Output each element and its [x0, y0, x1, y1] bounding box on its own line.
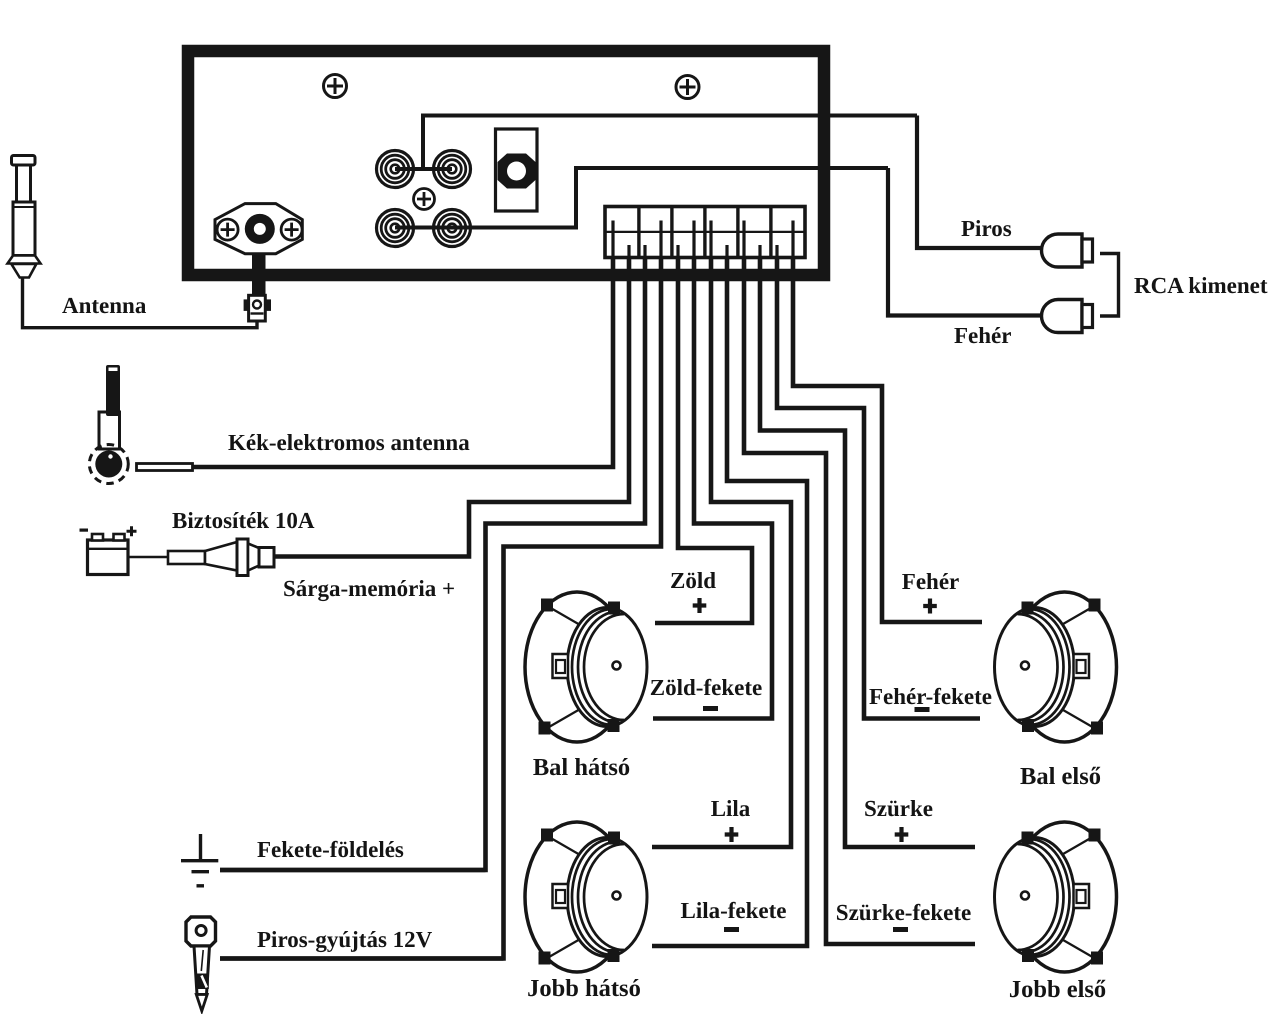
- electric antenna plug body: [99, 412, 120, 449]
- svg-text:Jobb első: Jobb első: [1009, 976, 1106, 1003]
- DIN module housing: [496, 129, 538, 211]
- wire black ground (pin 3): [220, 258, 645, 870]
- wire purple-black - right rear (pin 8): [652, 258, 807, 946]
- RCA jack rear bottom-right: [434, 210, 471, 247]
- wire yellow memory to fuse (pin 2): [275, 258, 629, 557]
- DIN module nut: [498, 154, 536, 189]
- svg-text:Piros: Piros: [961, 216, 1012, 241]
- antenna socket screw right: [281, 219, 302, 240]
- antenna socket screw left: [217, 219, 238, 240]
- svg-text:Fehér: Fehér: [954, 323, 1011, 348]
- battery plus sign: [127, 526, 137, 536]
- antenna plug side tabs: [244, 299, 250, 311]
- plus purple: [725, 827, 739, 842]
- minus grey-black: [893, 927, 908, 932]
- RCA jack rear top-left: [377, 151, 414, 188]
- wire grey-black - right front (pin 9): [744, 258, 975, 944]
- speaker right front (Jobb elso): [995, 822, 1117, 972]
- wire white-black - left front (pin 11): [777, 258, 980, 719]
- svg-text:Sárga-memória +: Sárga-memória +: [283, 576, 455, 602]
- fuse holder lead: [168, 551, 205, 564]
- minus purple-black: [724, 927, 739, 932]
- svg-text:Piros-gyújtás 12V: Piros-gyújtás 12V: [257, 927, 433, 953]
- head unit chassis: [188, 51, 824, 275]
- plus grey: [895, 827, 909, 842]
- wire purple + right rear (pin 7): [652, 258, 791, 847]
- battery terminal right: [114, 534, 125, 541]
- antenna mast body: [13, 202, 35, 256]
- antenna mast cap: [12, 156, 36, 166]
- svg-text:Biztosíték 10A: Biztosíték 10A: [172, 508, 315, 533]
- RCA jack rear top-right: [434, 151, 471, 188]
- wire grey + right front (pin 10): [760, 258, 975, 847]
- speaker right rear (Jobb hatso): [525, 822, 647, 972]
- battery body: [88, 540, 129, 575]
- plus white: [923, 599, 937, 614]
- svg-text:Jobb hátsó: Jobb hátsó: [527, 975, 641, 1002]
- svg-text:Lila-fekete: Lila-fekete: [680, 898, 786, 923]
- antenna socket octagon: [215, 204, 302, 254]
- ignition key head: [186, 917, 216, 946]
- wiring harness connector block: [605, 207, 805, 258]
- svg-text:Antenna: Antenna: [62, 293, 147, 318]
- svg-text:Fekete-földelés: Fekete-földelés: [257, 837, 404, 862]
- wire RCA red line inside unit: [395, 116, 917, 170]
- svg-text:Fehér: Fehér: [902, 569, 959, 594]
- screw between RCA jacks: [414, 189, 435, 210]
- screw top-right: [676, 76, 699, 99]
- wire ignition lead: [220, 956, 504, 960]
- wire RCA white to plug: [888, 168, 1043, 316]
- wire RCA red to plug: [917, 116, 1043, 249]
- svg-text:Zöld: Zöld: [670, 568, 716, 593]
- antenna socket barrel: [245, 214, 275, 244]
- antenna plug body: [249, 295, 266, 321]
- fuse holder collar: [237, 539, 248, 576]
- antenna mast flange: [8, 256, 41, 264]
- svg-text:Zöld-fekete: Zöld-fekete: [650, 675, 762, 700]
- wire battery to fuse: [128, 556, 168, 559]
- wire blue electric antenna (pin 1): [193, 258, 614, 467]
- svg-text:Lila: Lila: [711, 796, 751, 821]
- svg-text:Bal hátsó: Bal hátsó: [533, 754, 630, 781]
- svg-text:RCA kimenet: RCA kimenet: [1134, 273, 1268, 298]
- wire white + left front (pin 12): [793, 258, 982, 622]
- electric antenna plug ball: [95, 451, 122, 478]
- battery terminal left: [92, 534, 103, 541]
- RCA plug white: [1042, 300, 1083, 333]
- svg-text:Szürke-fekete: Szürke-fekete: [836, 900, 971, 925]
- electric antenna dashed circle: [89, 445, 128, 484]
- antenna mast base cone: [11, 264, 36, 278]
- speaker left front (Bal elso): [995, 592, 1117, 742]
- minus green-black: [703, 706, 718, 711]
- antenna mast neck: [17, 165, 31, 202]
- electric antenna plug rod: [106, 365, 120, 416]
- minus white-black: [915, 707, 930, 712]
- wire red ignition (pin 4): [220, 258, 661, 959]
- RCA bracket: [1100, 254, 1119, 317]
- wire RCA white line inside unit: [395, 168, 888, 228]
- wire green-black - left rear (pin 6): [653, 258, 772, 719]
- RCA plug red: [1042, 234, 1082, 267]
- plus green: [693, 598, 707, 613]
- RCA jack rear bottom-left: [377, 210, 414, 247]
- speaker left rear (Bal hatso): [525, 592, 647, 742]
- battery minus sign: [80, 529, 89, 532]
- screw top-left: [324, 75, 347, 98]
- fuse holder taper: [248, 544, 259, 571]
- svg-text:Bal első: Bal első: [1020, 763, 1101, 790]
- connector pins: [613, 221, 793, 263]
- fuse holder end cap: [259, 548, 274, 568]
- fuse holder cone: [205, 542, 237, 571]
- ground symbol: [181, 834, 218, 886]
- ignition key blade: [194, 946, 210, 995]
- wire green + left rear (pin 5): [655, 258, 752, 623]
- svg-text:Fehér-fekete: Fehér-fekete: [869, 684, 992, 709]
- electric antenna wire sleeve: [137, 464, 193, 471]
- wire antenna lead: [23, 278, 258, 328]
- svg-text:Kék-elektromos antenna: Kék-elektromos antenna: [228, 430, 470, 455]
- wire ground lead: [220, 868, 486, 872]
- svg-text:Szürke: Szürke: [864, 796, 933, 821]
- antenna socket stem: [252, 254, 266, 296]
